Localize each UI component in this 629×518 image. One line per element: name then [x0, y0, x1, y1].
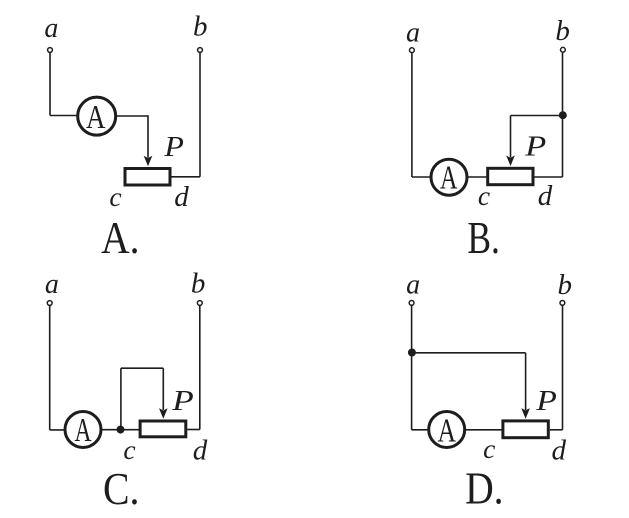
svg-text:b: b: [555, 15, 570, 47]
wire: rheostat d to right (A): [172, 176, 201, 178]
wire: up to terminal b (B): [562, 53, 564, 177]
svg-text:b: b: [558, 269, 573, 301]
wiper arrowhead (D): [521, 408, 530, 419]
wire: rheostat d to right (D): [550, 429, 563, 431]
svg-text:d: d: [551, 434, 566, 466]
wire: terminal a down (B): [411, 53, 413, 177]
wire: to ammeter (D): [412, 429, 430, 431]
wire: ammeter to rheostat c (D): [465, 429, 503, 431]
wiper stem down (D): [525, 353, 527, 410]
wire: to ammeter (C): [50, 429, 66, 431]
svg-text:P: P: [535, 385, 557, 417]
rheostat P (A): body: [125, 169, 170, 186]
svg-text:A: A: [440, 159, 458, 196]
rheostat P (B): body: [488, 168, 533, 184]
wire: wiper stem down (A): [147, 115, 149, 157]
wire: wiper branch horizontal (B): [511, 115, 563, 117]
svg-text:D.: D.: [465, 463, 504, 514]
terminal a (A): [48, 48, 53, 53]
svg-text:P: P: [163, 131, 184, 163]
terminal a (C): [47, 301, 52, 306]
svg-text:B.: B.: [467, 212, 500, 263]
wire: wiper loop left vertical (C): [120, 368, 122, 429]
wiper stem down (C): [162, 368, 164, 410]
svg-text:d: d: [538, 180, 553, 212]
svg-text:A: A: [75, 412, 92, 449]
rheostat P (D): body: [503, 421, 548, 438]
terminal a (D): [409, 301, 414, 306]
wire: wiper loop top (C): [121, 367, 163, 369]
wiper arrowhead (A): [144, 156, 153, 167]
terminal b (C): [197, 301, 202, 306]
svg-text:A: A: [86, 99, 106, 136]
wire: up to terminal b (C): [199, 306, 201, 430]
junction node on a wire (D): [408, 349, 416, 357]
wire: up to terminal b (D): [562, 306, 564, 430]
ammeter A (B): body: [431, 159, 467, 195]
wire: terminal a down (D): [411, 306, 413, 430]
svg-text:a: a: [406, 270, 420, 301]
svg-text:a: a: [44, 13, 58, 44]
wire: to ammeter (A): [50, 115, 79, 117]
wire: to ammeter (B): [412, 176, 432, 178]
wire: ammeter to rheostat c (C): [101, 429, 140, 431]
svg-text:c: c: [483, 433, 495, 464]
junction node c (C): [117, 426, 125, 434]
svg-text:A.: A.: [101, 212, 140, 263]
svg-text:A: A: [437, 412, 456, 449]
wire: ammeter to wiper corner (A): [116, 115, 148, 117]
wiper stem down (B): [510, 116, 512, 158]
wire: rheostat d to right (C): [187, 429, 200, 431]
wire: terminal a down (C): [49, 306, 51, 430]
wire: wiper branch horizontal (D): [412, 352, 526, 354]
wiper arrowhead (C): [159, 408, 168, 419]
svg-text:c: c: [109, 181, 121, 212]
ammeter A (C): body: [65, 412, 101, 448]
svg-text:b: b: [191, 268, 206, 300]
wire: terminal a down (A): [49, 53, 51, 116]
wire: ammeter to rheostat c (B): [467, 176, 489, 178]
wiper arrowhead (B): [506, 156, 515, 167]
wire: rheostat d to right (B): [535, 176, 563, 178]
svg-text:c: c: [123, 434, 135, 465]
wire: up to terminal b (A): [199, 53, 201, 177]
rheostat P (C): body: [140, 421, 186, 437]
svg-text:C.: C.: [103, 463, 140, 514]
svg-text:P: P: [171, 385, 194, 417]
terminal b (B): [561, 47, 566, 52]
svg-text:d: d: [193, 435, 208, 467]
svg-text:d: d: [174, 181, 189, 213]
svg-text:a: a: [406, 18, 420, 49]
junction node on b wire (B): [559, 111, 567, 119]
ammeter A (D): body: [429, 412, 465, 448]
terminal a (B): [410, 48, 415, 53]
svg-text:c: c: [478, 180, 490, 211]
terminal b (D): [560, 301, 565, 306]
ammeter A (A): body: [78, 97, 116, 135]
svg-text:a: a: [45, 269, 59, 300]
terminal b (A): [198, 48, 203, 53]
svg-text:P: P: [524, 131, 546, 163]
svg-text:b: b: [193, 10, 208, 42]
